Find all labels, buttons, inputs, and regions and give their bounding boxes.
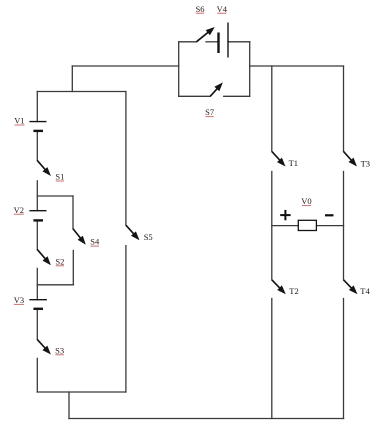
wire S2 contact to V3 xyxy=(36,268,38,299)
wire junction to S4 branch bottom xyxy=(37,284,73,286)
switch T2 xyxy=(272,280,286,294)
wire bottom branch left xyxy=(179,95,211,97)
label V0 xyxy=(301,196,311,206)
svg-text:S5: S5 xyxy=(144,232,153,242)
label S1 xyxy=(55,172,64,182)
switch S4 xyxy=(73,229,86,245)
wire bridge to T4 xyxy=(343,226,345,280)
wire bridge right xyxy=(316,225,343,227)
label V4 xyxy=(217,4,228,14)
svg-text:V4: V4 xyxy=(217,4,228,14)
wire S1 contact to V2 xyxy=(36,181,38,211)
wire bottom branch right xyxy=(224,95,250,97)
wire V2 to S2 xyxy=(36,220,38,249)
wire V1 to S1 xyxy=(36,131,38,161)
battery V1 xyxy=(29,122,46,131)
wire junction to S4 branch top xyxy=(37,195,73,197)
svg-text:V3: V3 xyxy=(14,295,24,305)
battery V2 xyxy=(29,211,46,221)
switch S1 xyxy=(37,160,51,176)
svg-text:S4: S4 xyxy=(90,237,100,247)
switch S7 xyxy=(210,82,223,96)
node top box left edge xyxy=(178,42,180,97)
label S3 xyxy=(55,345,64,355)
label V3 xyxy=(14,295,24,305)
wire left rail above V1 xyxy=(36,92,38,122)
label S4 xyxy=(90,237,100,247)
svg-text:T1: T1 xyxy=(289,158,298,168)
wire V3 to S3 xyxy=(36,309,38,340)
wire top branch right xyxy=(228,41,250,43)
wire mid-right horizontal xyxy=(250,65,344,67)
svg-text:V0: V0 xyxy=(301,196,311,206)
wire H-bridge right rail top xyxy=(343,66,345,151)
plus sign xyxy=(280,210,290,220)
svg-text:S6: S6 xyxy=(196,4,205,14)
wire left box top xyxy=(37,91,126,93)
wire S4 branch vertical xyxy=(72,196,74,229)
label S6 xyxy=(196,4,205,14)
svg-text:V1: V1 xyxy=(14,116,24,126)
battery V4 xyxy=(219,23,229,58)
label V1 xyxy=(14,116,24,126)
wire right rail of left box xyxy=(125,92,127,226)
svg-text:S1: S1 xyxy=(55,172,64,182)
wire S3 contact to bottom xyxy=(36,358,38,392)
svg-text:T3: T3 xyxy=(361,159,370,169)
wire top-left drop xyxy=(71,66,73,92)
svg-text:T2: T2 xyxy=(289,286,298,296)
svg-text:S2: S2 xyxy=(55,256,64,266)
svg-text:S3: S3 xyxy=(55,345,64,355)
switch T1 xyxy=(272,151,286,166)
wire S5 contact down xyxy=(125,246,127,392)
battery V3 xyxy=(29,300,47,309)
wire bridge to T2 xyxy=(271,226,273,280)
switch T4 xyxy=(344,280,358,294)
wire T3 contact to bridge xyxy=(343,172,345,226)
wire bottom drop xyxy=(68,392,70,419)
wire bridge left xyxy=(272,225,299,227)
wire T2 contact to bottom xyxy=(271,299,273,419)
wire top branch contact xyxy=(206,41,219,43)
label V2 xyxy=(14,205,24,215)
label S2 xyxy=(55,256,64,266)
switch T3 xyxy=(344,151,358,166)
minus sign xyxy=(325,214,334,216)
svg-text:V2: V2 xyxy=(14,205,24,215)
wire left box bottom xyxy=(37,391,126,393)
wire H-bridge left rail top xyxy=(271,66,273,151)
switch S6 xyxy=(196,27,214,42)
switch S5 xyxy=(126,225,140,240)
wire T1 contact to bridge xyxy=(271,172,273,226)
node top box right edge xyxy=(249,42,251,97)
wire mid-left horizontal xyxy=(72,65,178,67)
label S7 xyxy=(205,107,214,117)
wire S4 contact vertical xyxy=(72,250,74,284)
switch S3 xyxy=(37,339,51,354)
wire T4 contact to bottom xyxy=(343,299,345,419)
switch S2 xyxy=(37,249,51,265)
resistor V0 box xyxy=(298,220,316,230)
svg-text:T4: T4 xyxy=(360,286,370,296)
wire bottom bus xyxy=(69,418,344,420)
svg-text:S7: S7 xyxy=(205,107,214,117)
wire top branch left xyxy=(179,41,197,43)
